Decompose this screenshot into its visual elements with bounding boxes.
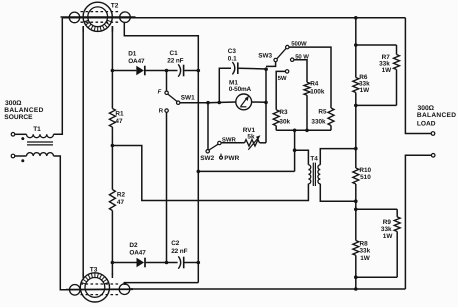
- label 500W: [291, 40, 307, 47]
- node T3 loop tail: [123, 282, 126, 285]
- wire meter rail left: [208, 101, 236, 104]
- label R6: [359, 74, 370, 94]
- node R9 branch top: [354, 208, 358, 212]
- label M1: [229, 79, 252, 93]
- label 5W: [278, 75, 287, 82]
- label R8: [360, 240, 371, 262]
- svg-text:OA47: OA47: [129, 249, 146, 256]
- wire R4 bottom: [306, 95, 308, 130]
- svg-text:R8: R8: [360, 240, 369, 247]
- transformer T2: [61, 2, 136, 31]
- svg-text:500W: 500W: [291, 40, 307, 47]
- svg-text:1W: 1W: [360, 255, 371, 262]
- wire SW2 pole rail: [207, 103, 209, 150]
- label T1: [33, 126, 41, 133]
- contact SW2 PWR pos: [220, 154, 223, 160]
- svg-text:33k: 33k: [360, 248, 371, 255]
- wire T4 primary top: [295, 150, 309, 165]
- node R7 branch top: [354, 43, 358, 47]
- terminal load bottom: [431, 154, 435, 158]
- label PWR: [224, 155, 239, 162]
- wire T4 secondary top: [320, 149, 356, 165]
- node meter left: [206, 101, 210, 105]
- svg-text:T4: T4: [310, 155, 318, 162]
- wire divider bottom line: [276, 129, 331, 131]
- wire T1 secondary to T3: [54, 156, 70, 290]
- terminal source bottom: [11, 154, 15, 158]
- wire R rail: [166, 112, 168, 262]
- wire meter rail right: [252, 101, 266, 103]
- svg-text:SOURCE: SOURCE: [4, 114, 33, 121]
- label R9: [381, 219, 393, 240]
- switch SW2 arm: [209, 144, 218, 150]
- node R9 branch bottom: [354, 275, 358, 279]
- svg-text:1W: 1W: [383, 233, 394, 240]
- wire D1 anode: [112, 70, 136, 72]
- node C3-SW3: [264, 67, 268, 71]
- label T3: [90, 266, 98, 273]
- node D2 anode: [111, 261, 115, 265]
- svg-text:510: 510: [360, 174, 371, 181]
- node T4 sec bottom tap: [354, 199, 358, 203]
- svg-text:330k: 330k: [311, 118, 326, 125]
- svg-text:22 nF: 22 nF: [167, 57, 183, 64]
- svg-text:1W: 1W: [382, 67, 393, 74]
- wire C1 left: [167, 70, 178, 72]
- svg-text:0-50mA: 0-50mA: [229, 86, 252, 93]
- contact SW3 5W: [285, 70, 288, 73]
- wire chain mid2: [355, 184, 357, 241]
- contact SW1 R: [165, 109, 168, 112]
- label C1: [167, 50, 183, 65]
- resistor R5: [328, 108, 334, 126]
- node T4 sec top tap: [354, 147, 358, 151]
- wire R5 bottom: [330, 126, 332, 131]
- wire R3 bottom: [275, 126, 277, 131]
- transformer T1: [27, 134, 54, 156]
- label F: [158, 89, 162, 96]
- resistor R6: [353, 78, 359, 93]
- svg-text:SW1: SW1: [181, 94, 195, 101]
- svg-text:PWR: PWR: [224, 155, 239, 162]
- node D2-C2: [165, 261, 169, 265]
- switch SW3 arm: [277, 48, 286, 58]
- wire T2 secondary left lead: [82, 26, 84, 32]
- node meter right: [264, 101, 268, 105]
- svg-text:R9: R9: [383, 219, 392, 226]
- diode D1: [136, 66, 145, 76]
- svg-text:22 nF: 22 nF: [171, 248, 187, 255]
- svg-text:R10: R10: [359, 167, 371, 174]
- node tap to T4 primary: [111, 144, 115, 148]
- svg-text:D1: D1: [128, 50, 137, 57]
- capacitor C1: [178, 64, 183, 76]
- node C3 branch bottom: [218, 101, 222, 105]
- wire C3 right: [239, 67, 267, 70]
- wire load bottom: [405, 155, 431, 289]
- wire C3 left: [219, 68, 231, 102]
- wire load top: [405, 18, 431, 134]
- wire D1 cathode: [146, 70, 167, 72]
- wire F lead: [166, 71, 168, 92]
- svg-text:F: F: [158, 89, 162, 96]
- label SW2: [200, 155, 214, 162]
- svg-text:T1: T1: [33, 126, 41, 133]
- svg-text:R2: R2: [117, 192, 126, 199]
- svg-text:T2: T2: [111, 3, 119, 10]
- svg-text:5k: 5k: [247, 134, 255, 141]
- wire SWR to RV1: [221, 142, 244, 144]
- terminal load top: [431, 132, 435, 136]
- svg-text:R1: R1: [115, 111, 124, 118]
- label D1: [128, 50, 145, 65]
- svg-text:D2: D2: [129, 242, 138, 249]
- label R10: [359, 167, 371, 181]
- node common-bus: [197, 170, 201, 174]
- resistor R9 branch: [356, 209, 400, 277]
- node D1 anode: [111, 69, 115, 73]
- contact SW3 50W: [291, 58, 294, 61]
- wire T2 secondary right lead: [111, 26, 113, 32]
- contact SW1 pole: [177, 101, 180, 104]
- wire T3 secondary right lead: [111, 274, 113, 279]
- wire right secondary rail mid: [111, 127, 113, 190]
- svg-text:SW3: SW3: [258, 52, 272, 59]
- diode D2: [137, 258, 146, 268]
- switch SW1 arm: [168, 94, 177, 101]
- resistor R2: [109, 190, 115, 211]
- wire RV1 right: [260, 142, 267, 144]
- potentiometer RV1: [245, 135, 261, 150]
- resistor R1: [109, 109, 115, 128]
- svg-text:C1: C1: [170, 50, 179, 57]
- wire T2 right loop tail: [124, 22, 198, 71]
- wire chain mid1: [355, 93, 357, 169]
- label R2: [117, 192, 126, 206]
- label 300ohm source: [4, 100, 43, 121]
- label SW1: [181, 94, 195, 101]
- svg-text:5W: 5W: [278, 75, 287, 82]
- meter M1: [236, 94, 252, 110]
- svg-text:47: 47: [115, 118, 123, 125]
- wire top through-line: [62, 17, 405, 19]
- svg-text:100k: 100k: [310, 88, 325, 95]
- label SW3: [258, 52, 272, 59]
- svg-text:R4: R4: [310, 80, 319, 87]
- node divider-common: [293, 129, 297, 133]
- contact SW2 SWR: [218, 141, 221, 144]
- wire common drop: [294, 130, 296, 171]
- label R7: [379, 54, 392, 74]
- wire T1 primary riser: [54, 18, 63, 135]
- node C1 common: [197, 69, 201, 73]
- label T2: [111, 3, 119, 10]
- resistor R8: [353, 241, 359, 256]
- wire SW1 output: [180, 102, 208, 104]
- node C2 common: [197, 261, 201, 265]
- transformer T4: [308, 163, 320, 186]
- phase dot T1 secondary: [21, 159, 24, 162]
- resistor R4: [304, 82, 310, 95]
- label C2: [171, 240, 187, 255]
- wire bottom through-line: [129, 288, 405, 290]
- node R7 branch bottom: [354, 104, 358, 108]
- wire 50W to R4: [294, 60, 307, 82]
- contact SW3 pole: [274, 58, 277, 61]
- capacitor C2: [178, 256, 183, 268]
- label R1: [115, 111, 124, 125]
- wire C2 left: [167, 262, 178, 264]
- wire chain top: [355, 18, 357, 78]
- svg-text:0.1: 0.1: [228, 55, 237, 62]
- wire T4 secondary bottom: [320, 184, 356, 201]
- svg-text:BALANCED: BALANCED: [417, 112, 456, 119]
- label R5: [311, 108, 327, 125]
- svg-text:C3: C3: [228, 48, 237, 55]
- label D2: [129, 242, 146, 256]
- terminal source top: [11, 133, 15, 137]
- wire right secondary rail top: [111, 26, 113, 109]
- svg-text:LOAD: LOAD: [417, 121, 436, 128]
- wire source bottom lead: [15, 155, 27, 157]
- svg-text:R: R: [159, 108, 164, 115]
- wire source top lead: [15, 133, 27, 135]
- contact SW2 pole: [206, 150, 209, 153]
- label R3: [279, 109, 290, 126]
- svg-text:T3: T3: [90, 266, 98, 273]
- wire 500W to R5: [289, 47, 331, 108]
- wire SW3 pole jog: [266, 62, 276, 67]
- wire tap to T4 primary: [112, 146, 308, 201]
- contact SW3 500W: [286, 45, 289, 48]
- svg-text:1W: 1W: [360, 87, 371, 94]
- label T4: [310, 155, 318, 162]
- label 300ohm load: [417, 105, 456, 127]
- svg-text:47: 47: [117, 199, 125, 206]
- label 50W: [295, 53, 309, 60]
- svg-text:R5: R5: [318, 108, 327, 115]
- svg-text:BALANCED: BALANCED: [4, 107, 43, 114]
- svg-text:R3: R3: [279, 109, 288, 116]
- contact SW1 F: [165, 91, 168, 94]
- wire SW3 pole rail: [265, 69, 267, 143]
- node divider-R4: [305, 129, 309, 133]
- wire bus: [198, 170, 294, 172]
- resistor R3: [273, 110, 279, 126]
- wire left secondary rail: [82, 26, 84, 276]
- node chain bottom: [354, 287, 358, 291]
- label R4: [310, 80, 325, 95]
- wire D2 cathode: [146, 262, 167, 264]
- phase dot T1 primary: [21, 137, 24, 140]
- label C3: [228, 48, 237, 63]
- svg-text:SW2: SW2: [200, 155, 214, 162]
- svg-text:OA47: OA47: [128, 58, 145, 65]
- wire common rail to T3 loop: [125, 283, 199, 285]
- wire chain bottom: [355, 255, 357, 289]
- wire common rail: [197, 71, 199, 283]
- label SWR: [222, 137, 237, 144]
- capacitor C3: [232, 62, 237, 74]
- wire C1 right: [184, 70, 198, 72]
- node D1-C1: [165, 69, 169, 73]
- wire D2 anode: [112, 262, 136, 264]
- wire right secondary rail bottom: [111, 211, 113, 275]
- wire 5W to R3: [276, 71, 285, 109]
- transformer T3: [66, 273, 133, 302]
- resistor R10: [353, 168, 359, 184]
- label R: [159, 108, 164, 115]
- svg-text:C2: C2: [171, 240, 180, 247]
- wire T3 secondary left lead: [82, 273, 84, 278]
- label RV1: [243, 127, 256, 141]
- node chain top: [354, 16, 358, 20]
- resistor R7 branch: [356, 45, 400, 105]
- svg-text:30k: 30k: [279, 118, 290, 125]
- wire C2 right: [185, 262, 199, 264]
- node T4 primary tap: [293, 148, 297, 152]
